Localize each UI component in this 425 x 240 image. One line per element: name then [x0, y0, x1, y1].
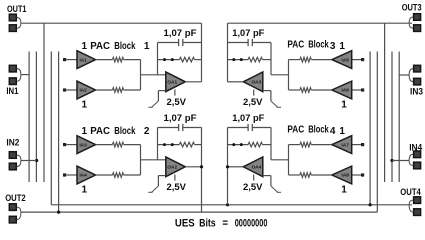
- svg-text:1: 1: [82, 41, 88, 52]
- svg-text:1,07 pF: 1,07 pF: [232, 113, 265, 123]
- svg-text:Block: Block: [308, 125, 329, 136]
- svg-text:Bits: Bits: [199, 217, 216, 229]
- svg-text:PAC: PAC: [287, 40, 304, 51]
- svg-text:OA3: OA3: [252, 80, 262, 85]
- svg-text:IN3: IN3: [410, 87, 423, 98]
- svg-text:OUT2: OUT2: [5, 193, 26, 204]
- svg-text:1,07 pF: 1,07 pF: [164, 113, 198, 123]
- svg-text:IN2: IN2: [6, 137, 19, 148]
- svg-text:IA6: IA6: [342, 88, 350, 93]
- svg-text:IA5: IA5: [342, 57, 350, 62]
- svg-text:OA2: OA2: [167, 165, 177, 170]
- svg-text:00000000: 00000000: [235, 217, 268, 229]
- svg-text:IN4: IN4: [409, 143, 423, 154]
- svg-text:1: 1: [82, 126, 88, 137]
- svg-text:3: 3: [330, 41, 336, 52]
- svg-text:2,5V: 2,5V: [243, 182, 263, 192]
- svg-text:PAC: PAC: [90, 126, 110, 137]
- svg-text:1: 1: [341, 99, 347, 110]
- svg-text:IA1: IA1: [79, 57, 87, 62]
- svg-text:Block: Block: [114, 41, 135, 52]
- svg-text:2,5V: 2,5V: [243, 97, 263, 107]
- svg-text:OUT1: OUT1: [7, 4, 27, 15]
- svg-text:IA2: IA2: [79, 88, 87, 93]
- svg-text:1: 1: [339, 41, 345, 52]
- svg-text:2: 2: [144, 126, 150, 137]
- svg-text:Block: Block: [308, 40, 329, 51]
- svg-text:IN1: IN1: [6, 86, 19, 97]
- svg-text:OA1: OA1: [167, 80, 177, 85]
- svg-text:OA4: OA4: [252, 165, 262, 170]
- svg-text:1,07 pF: 1,07 pF: [232, 28, 265, 38]
- svg-text:Block: Block: [114, 126, 135, 137]
- svg-text:IA3: IA3: [79, 142, 87, 147]
- svg-text:1: 1: [82, 99, 88, 110]
- svg-text:IA4: IA4: [79, 173, 87, 178]
- svg-text:1: 1: [82, 184, 88, 195]
- svg-text:1: 1: [341, 184, 347, 195]
- svg-text:2,5V: 2,5V: [167, 182, 187, 192]
- svg-text:1: 1: [339, 126, 345, 137]
- svg-text:OUT3: OUT3: [402, 3, 422, 14]
- svg-text:1,07 pF: 1,07 pF: [164, 28, 198, 38]
- svg-text:2,5V: 2,5V: [167, 97, 187, 107]
- svg-text:PAC: PAC: [90, 41, 110, 52]
- svg-text:UES: UES: [175, 217, 195, 229]
- svg-text:IA8: IA8: [342, 173, 350, 178]
- svg-text:IA7: IA7: [342, 142, 350, 147]
- svg-text:4: 4: [330, 126, 336, 137]
- svg-text:OUT4: OUT4: [400, 187, 421, 198]
- svg-text:1: 1: [144, 41, 150, 52]
- svg-text:PAC: PAC: [287, 125, 304, 136]
- svg-text:=: =: [222, 217, 228, 229]
